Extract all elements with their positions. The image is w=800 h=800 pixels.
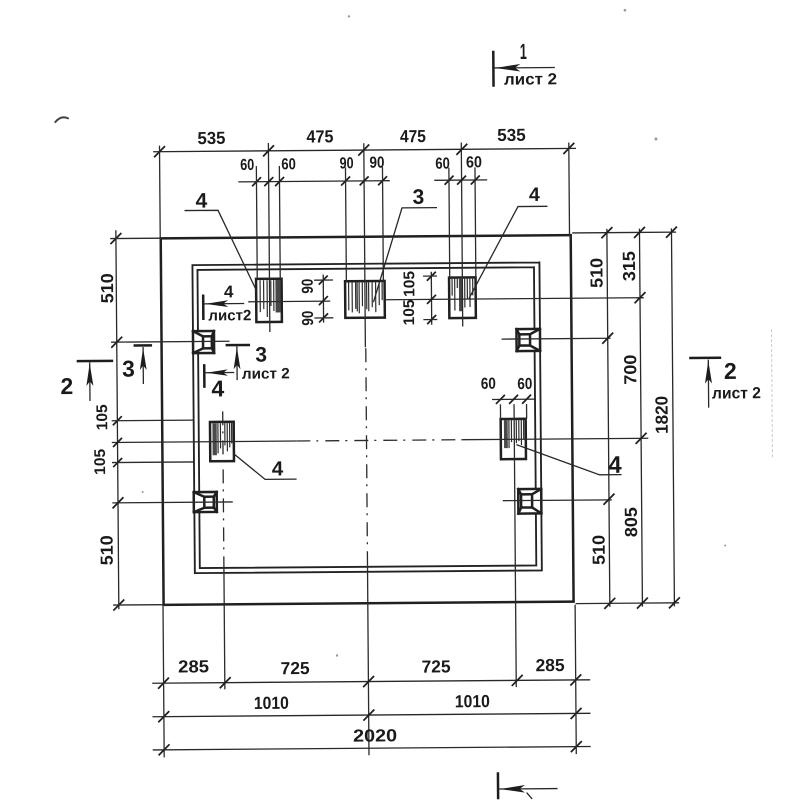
bottom chain 1010/1010 <box>152 713 590 716</box>
svg-text:4: 4 <box>529 184 540 206</box>
keyway notch upper-right <box>516 329 540 351</box>
bottom chain 2020 <box>153 747 591 750</box>
svg-text:510: 510 <box>589 535 609 565</box>
wall outer face (double-line rectangle, gaps at keyway notches) <box>192 262 541 573</box>
svg-text:4: 4 <box>272 457 284 480</box>
svg-text:105: 105 <box>94 404 111 431</box>
svg-text:60: 60 <box>435 156 450 173</box>
svg-text:2: 2 <box>60 373 73 399</box>
svg-text:лист 2: лист 2 <box>712 385 761 402</box>
svg-text:1: 1 <box>520 39 527 64</box>
svg-text:315: 315 <box>619 251 639 281</box>
second top chain 60/60 90/90 60/60 <box>238 180 487 182</box>
svg-text:3: 3 <box>255 344 267 367</box>
horizontal axis through side plates <box>112 441 296 442</box>
svg-text:90: 90 <box>300 279 317 294</box>
top dimension chain line 535/475/475/535 <box>153 148 576 151</box>
svg-text:2020: 2020 <box>353 725 397 745</box>
svg-text:285: 285 <box>536 655 565 675</box>
svg-text:60: 60 <box>281 156 296 173</box>
right dimension chains 510/315/700/1820/805/510 <box>607 228 675 606</box>
svg-text:510: 510 <box>97 535 117 565</box>
svg-text:60: 60 <box>466 154 482 171</box>
callout 4 (right-wall plate) <box>516 444 622 480</box>
faint margin mark left <box>55 117 69 122</box>
callout 4 (left-wall plate) <box>234 453 297 480</box>
long horizontal extension through top-right plate to right chain <box>385 298 643 300</box>
svg-text:60: 60 <box>240 157 254 174</box>
section marker 3 (left chain, up arrow) <box>122 345 153 384</box>
wall inner face <box>197 267 536 568</box>
centreline through top-left plate (vertical) <box>268 143 269 332</box>
centreline upper-right notch <box>502 337 611 340</box>
svg-text:105: 105 <box>401 270 418 297</box>
keyway notch lower-right <box>518 489 541 514</box>
svg-text:4: 4 <box>211 375 224 401</box>
svg-text:4: 4 <box>224 282 234 301</box>
svg-text:3: 3 <box>412 186 424 209</box>
svg-text:475: 475 <box>400 126 426 146</box>
section marker (bottom, cut off) <box>498 772 558 799</box>
embedded plate 3 (top wall, centre) <box>345 281 385 318</box>
svg-text:1010: 1010 <box>254 693 289 713</box>
svg-text:700: 700 <box>620 354 640 384</box>
centreline lower-right notch <box>503 499 612 502</box>
centreline upper-left notch <box>111 340 229 343</box>
right extension lines <box>572 232 679 604</box>
ticks top chain <box>154 143 574 157</box>
bottom dimension chain 285/725/725/285 <box>152 680 590 683</box>
svg-text:535: 535 <box>497 125 526 145</box>
axis of left wall plate (vertical) <box>223 411 224 561</box>
svg-text:725: 725 <box>422 656 451 676</box>
svg-text:60: 60 <box>481 376 496 393</box>
keyway notch upper-left <box>193 331 214 353</box>
svg-text:510: 510 <box>97 273 117 303</box>
callout 3 (top-centre plate) <box>373 186 438 303</box>
embedded plate 4 (right wall) <box>501 419 526 459</box>
left dimension chain 510/105/105/510 <box>116 230 119 609</box>
svg-text:535: 535 <box>197 128 225 148</box>
svg-text:60: 60 <box>517 376 532 393</box>
svg-text:лист2: лист2 <box>208 307 251 324</box>
embedded plate 4 (top wall, right) <box>449 277 476 318</box>
centreline through top-right plate (vertical) <box>461 143 462 327</box>
keyway notch lower-left <box>194 492 217 512</box>
svg-text:90: 90 <box>340 155 354 172</box>
embedded plate 4 (top wall, left) <box>256 279 282 322</box>
svg-text:475: 475 <box>306 126 333 146</box>
svg-text:90: 90 <box>300 311 317 326</box>
scan specks <box>138 8 727 658</box>
section marker 2 / лист 2 (right edge, up arrow) <box>689 357 761 407</box>
svg-text:лист 2: лист 2 <box>504 71 557 88</box>
outer slab outline <box>161 235 574 605</box>
corner extension verticals to top chain <box>159 142 569 238</box>
svg-text:1010: 1010 <box>455 691 490 711</box>
vertical 105/105 chain beside top-right plate <box>430 272 432 325</box>
vertical axis of plan <box>366 348 368 565</box>
svg-text:285: 285 <box>178 656 209 676</box>
section marker 4 (lower-left inside) <box>204 364 234 402</box>
svg-text:510: 510 <box>586 258 606 288</box>
svg-text:лист 2: лист 2 <box>242 365 290 382</box>
svg-text:1820: 1820 <box>651 396 671 434</box>
callout 4 (top-right plate) <box>468 184 548 299</box>
section marker 2 (left edge, up arrow) <box>60 361 113 401</box>
svg-text:2: 2 <box>724 358 737 384</box>
svg-text:3: 3 <box>122 356 135 382</box>
faint page edge right <box>771 329 772 457</box>
left extension lines <box>110 238 194 605</box>
centreline lower-left notch <box>112 501 232 504</box>
embedded plate 4 (left wall) <box>210 422 234 461</box>
centreline through top-left plate (horizontal) <box>248 300 330 303</box>
bottom extension verticals <box>163 603 576 758</box>
extension verticals from 60/60 90/90 chains down to plates <box>256 164 476 282</box>
svg-text:105: 105 <box>401 299 418 326</box>
svg-text:725: 725 <box>281 658 310 678</box>
60/60 chain above right-wall plate <box>492 398 536 400</box>
section marker 3 / лист 2 (inside, up arrow) <box>226 343 290 383</box>
axis of right wall plate (vertical) <box>514 404 516 687</box>
section marker 4 / лист2 (upper-left inside) <box>203 282 251 324</box>
svg-text:805: 805 <box>621 507 641 537</box>
centreline through top-centre plate (vertical) <box>364 143 366 347</box>
svg-text:4: 4 <box>195 190 207 213</box>
vertical 90/90 chain beside top-left plate <box>322 275 324 323</box>
callout 4 (top-left plate) <box>184 189 256 290</box>
section marker 1 / лист 2 (top) <box>493 39 557 89</box>
svg-text:105: 105 <box>92 448 109 475</box>
